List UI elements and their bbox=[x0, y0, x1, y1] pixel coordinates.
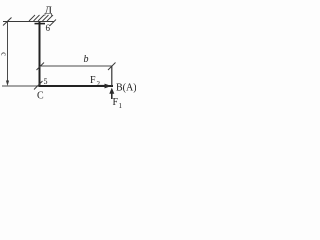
svg-text:5: 5 bbox=[44, 77, 48, 86]
svg-text:c: c bbox=[0, 52, 9, 56]
svg-text:C: C bbox=[37, 91, 44, 102]
svg-text:6: 6 bbox=[46, 23, 51, 33]
svg-text:2: 2 bbox=[97, 80, 101, 88]
svg-text:B(A): B(A) bbox=[116, 83, 136, 94]
svg-text:1: 1 bbox=[119, 102, 123, 110]
svg-text:F: F bbox=[90, 75, 96, 86]
svg-text:Д: Д bbox=[45, 5, 53, 17]
svg-text:b: b bbox=[84, 54, 89, 65]
